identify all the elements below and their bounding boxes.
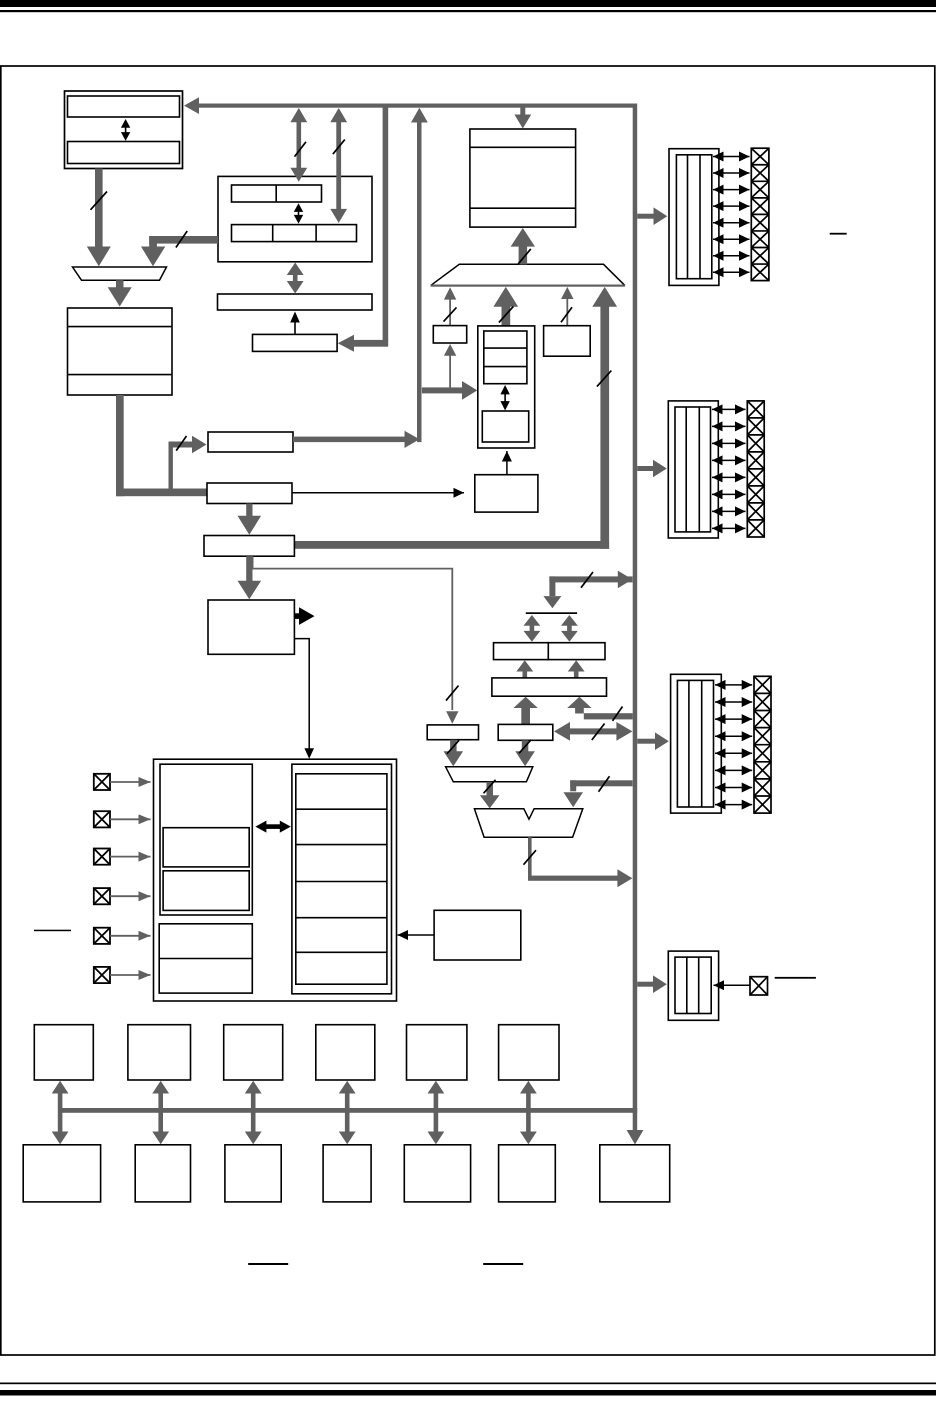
divider in row1 [275, 185, 277, 202]
wire gray double arrow W reg to bus [560, 728, 625, 734]
reg pair right box [548, 643, 605, 660]
PORTC pin X column [754, 676, 771, 813]
wire black double arrow between flash inner boxes [125, 124, 127, 136]
bus width slash [599, 776, 610, 792]
bus width slash [484, 780, 496, 794]
bus width slash [447, 740, 459, 754]
pin label dash bottom right [483, 1263, 523, 1265]
bus width slash [581, 572, 593, 588]
wire box1 to vertical bus arrow [293, 437, 405, 443]
wire ALU output to bus [528, 837, 532, 878]
address mux trapezoid [431, 264, 624, 285]
wire mux to left big box arrow [116, 280, 124, 288]
bus width slash on flash mux arrow [91, 192, 108, 210]
pin X-box left 5 [94, 928, 110, 944]
PORTB pin X column [747, 401, 764, 537]
wire data bus vertical right [633, 104, 638, 1131]
wide box row3 [218, 294, 373, 310]
FSR box [475, 475, 538, 512]
PORTE pin X box [750, 977, 768, 995]
bus width slash [561, 307, 572, 322]
pin X-box left 3 [94, 849, 110, 865]
flash inner box upper [68, 96, 180, 117]
wire gray double arrow left onto regs [524, 615, 541, 642]
wire gray up arrow into left reg [516, 660, 533, 678]
wire gray arrow box3 to box4 [246, 556, 252, 581]
wire arrow alu mux to ALU [487, 782, 494, 796]
reg pair left box [494, 643, 549, 660]
wire pin arrow 4 [110, 895, 151, 897]
right column inner box [296, 774, 387, 984]
wire elbow from bus down onto literal line [549, 576, 632, 582]
program counter box row1 [232, 185, 322, 202]
wire black double arrow between row1 and row2 [298, 208, 300, 219]
wire arrow mux feed box to alu mux [450, 740, 457, 752]
timer box 1 [34, 1025, 93, 1080]
bus width slash [295, 142, 307, 157]
wire peripheral bus horizontal bottom [58, 1108, 637, 1113]
wire elbow from bus down to ALU right input [570, 780, 632, 786]
PORTA outer box [669, 149, 719, 286]
peripheral box row2 3 [225, 1145, 281, 1202]
wire thick up arrow from bus elbow to wide box [575, 708, 584, 714]
wire thick arrow from lower bus up to address mux [600, 307, 609, 549]
wire black control arrow right of box4 [294, 613, 300, 619]
pin X-box left 4 [94, 888, 110, 904]
wire pin arrow 3 [110, 856, 151, 858]
top rule thick [0, 0, 936, 7]
pin label dash right of PORTE [775, 977, 816, 979]
lower two-row box [159, 924, 252, 993]
right column outer box [292, 764, 392, 994]
PORTB inner striped box [675, 407, 711, 532]
bus width slash [333, 140, 345, 155]
wire program bus horizontal top [198, 104, 635, 108]
PORTC inner striped box [677, 680, 713, 807]
PORTB outer box [668, 401, 718, 538]
wire branch feed to tall box [422, 387, 462, 393]
wire PORTB pin arrows [712, 409, 746, 528]
stack outer box [218, 176, 372, 261]
peripheral box row2 6 [499, 1145, 556, 1202]
wire vertical gray bus x420 [417, 122, 422, 443]
timer box 3 [224, 1025, 283, 1080]
wire arrow W reg to alu mux [522, 740, 529, 751]
wire PORTE pin arrow pointing left [714, 984, 751, 986]
pin label dash bottom left [248, 1263, 288, 1265]
top rule thin [0, 10, 936, 12]
gray bottom edge of address mux [431, 285, 626, 287]
wire flash box to program mux arrow [95, 169, 103, 247]
small box below address mux [433, 326, 466, 343]
wire gray double arrow bus to row2 [336, 120, 341, 210]
wire gray double arrow peripheral 3 [245, 1081, 262, 1145]
bottom rule thick [0, 1390, 936, 1396]
wire program bus arrowhead into flash box [184, 97, 199, 114]
pin label dash left [34, 930, 71, 932]
bus width slash on branch [176, 436, 186, 451]
dividers in row2 [272, 225, 274, 242]
wire vertical gray bus x385 from top bus [383, 108, 389, 341]
timer box 2 [128, 1025, 191, 1080]
wire elbow from stack left edge to program mux [149, 236, 218, 244]
wire gray double arrow peripheral 1 [52, 1081, 69, 1145]
wire gray double arrow peripheral 6 [520, 1081, 537, 1145]
bus width slash [597, 371, 611, 387]
clock source box [434, 910, 521, 960]
wire bus feed arrow to PORTE [637, 982, 653, 987]
wire thick arrow tall box to address mux [502, 307, 511, 326]
wide multiply box [492, 678, 607, 696]
mux feed box left [427, 725, 478, 740]
control outer box [154, 759, 397, 1001]
tall box inner upper box [484, 331, 527, 384]
wire up arrowhead into top bus [411, 108, 428, 123]
osc sub box 1 [163, 828, 249, 867]
PORTA pin X column [751, 148, 769, 280]
wire bus feed arrow to PORTB [637, 466, 653, 471]
wire gray double arrow peripheral 5 [428, 1081, 445, 1145]
wire black arrow FSR box up to tall box [506, 451, 508, 475]
bottom rule thin [0, 1383, 936, 1385]
wire thick arrow address mux to RAM [519, 246, 528, 265]
osc sub box 2 [163, 871, 249, 911]
peripheral box row2 5 [404, 1145, 470, 1202]
wire thin black line box4 to control box below [294, 639, 309, 749]
wire branch up to box1 with arrow [169, 442, 173, 489]
bus width slash [592, 724, 605, 741]
wire black double arrow inside tall box [504, 390, 506, 406]
wire pin arrow 5 [110, 935, 151, 937]
stack box row2 [232, 225, 357, 242]
wire thin arrow small box to address mux [449, 299, 451, 325]
box row4 [253, 334, 338, 351]
RAM file registers box [470, 129, 576, 227]
timer box 6 [499, 1025, 559, 1080]
bus width slash on elbow [176, 231, 187, 248]
bus width slash [524, 850, 537, 865]
PORTE outer box [668, 951, 718, 1020]
wire arrowhead left into row4 box [338, 335, 354, 352]
ALU trapezoid with notch [474, 809, 582, 838]
wire gray arrow box2 to box3 [246, 504, 252, 517]
flash program memory outer box [65, 91, 183, 169]
peripheral box row2 2 [135, 1145, 190, 1202]
wire thick path from big box down and right to box2 [116, 395, 124, 496]
wire thick horizontal from box3 to riser [294, 541, 609, 549]
wire PORTA pin arrows [713, 157, 750, 273]
pin label dash right of PORTA [830, 233, 847, 235]
wire PORTC pin arrows [715, 685, 752, 805]
wire black fat double arrow between osc box and column [264, 824, 282, 829]
wire pin arrow 1 [110, 781, 151, 783]
wire gray up arrow into right reg [568, 660, 585, 678]
wire gray double arrow bus to stack box [297, 120, 302, 170]
PORTA inner striped box [676, 155, 711, 279]
wire bus feed arrow to PORTC [637, 739, 655, 744]
wire thin arrow right box to address mux [566, 299, 568, 326]
wire black arrow from box2 toward FSR box [292, 492, 464, 494]
box4 instruction decode [208, 600, 294, 654]
flash inner box lower [68, 142, 180, 164]
wire data bus arrowhead down into bottom box [627, 1130, 644, 1145]
wire black arrow row4 up to row3 [294, 320, 296, 334]
timer box 4 [316, 1025, 375, 1080]
wire thin arrow up from branch to small box [449, 356, 451, 388]
bus width slash on thin path [446, 686, 459, 701]
program mux trapezoid left [73, 267, 167, 280]
box1 instruction address register [208, 432, 293, 452]
alu input mux trapezoid [446, 767, 533, 782]
wire thick up arrow from W reg to wide box [521, 708, 530, 725]
pin X-box left 2 [94, 811, 110, 827]
peripheral box row2 7 [600, 1145, 670, 1202]
bus width slash [518, 249, 531, 264]
wire pin arrow 2 [110, 818, 151, 820]
wire thin gray path box3 to mux feed box [253, 556, 453, 710]
wire gray double arrow right onto regs [561, 615, 578, 642]
pin X-box left 6 [94, 967, 110, 983]
right small box below address mux [544, 326, 591, 357]
peripheral box row2 4 [323, 1145, 371, 1202]
W register box [498, 724, 553, 740]
wire gray double arrow peripheral 2 [152, 1081, 169, 1145]
wire gray double arrow stack to row3 [293, 274, 298, 282]
tall indirect addressing outer box [478, 326, 535, 448]
box2 [207, 483, 292, 504]
bus width slash [499, 307, 513, 323]
wire gray double arrow peripheral 4 [339, 1081, 356, 1145]
tall box inner lower box [482, 411, 528, 442]
PORTE inner striped box [675, 957, 711, 1013]
wire arrow top bus down into RAM [520, 108, 525, 115]
bus width slash [613, 707, 623, 721]
bus width slash [444, 307, 457, 321]
PORTC outer box [671, 674, 722, 813]
wire black arrow clock box to control column [398, 934, 435, 936]
pin X-box left 1 [94, 774, 110, 790]
left big memory box [68, 308, 173, 395]
literal line [526, 612, 577, 614]
box3 [204, 536, 294, 557]
wire bus feed arrow to PORTA [637, 214, 654, 219]
bus width slash [519, 740, 531, 754]
peripheral box row2 1 [23, 1145, 100, 1202]
osc section box [160, 764, 252, 915]
wire pin arrow 6 [110, 974, 151, 976]
timer box 5 [407, 1025, 467, 1080]
